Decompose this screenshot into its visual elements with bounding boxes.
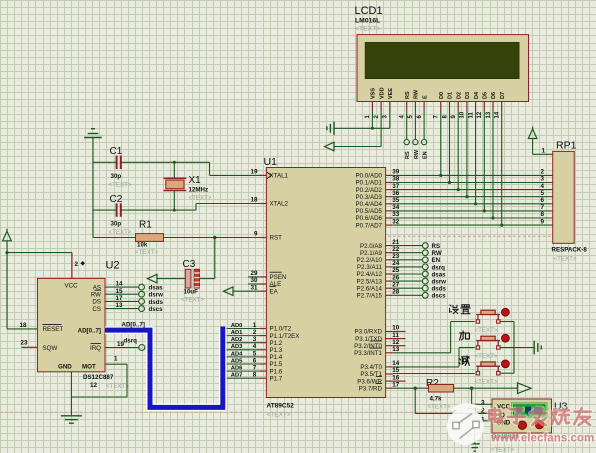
svg-text:D2: D2 bbox=[456, 92, 462, 99]
svg-text:XTAL2: XTAL2 bbox=[270, 201, 289, 208]
svg-text:3: 3 bbox=[481, 400, 485, 407]
svg-text:RW: RW bbox=[414, 89, 420, 99]
svg-text:1: 1 bbox=[542, 147, 546, 154]
svg-text:24: 24 bbox=[392, 260, 400, 267]
svg-text:P3.1/TXD: P3.1/TXD bbox=[355, 336, 382, 343]
svg-text:14: 14 bbox=[116, 281, 124, 288]
svg-text:RW: RW bbox=[414, 149, 420, 159]
svg-text:VSS: VSS bbox=[371, 88, 377, 99]
svg-text:RS: RS bbox=[405, 91, 411, 99]
svg-text:28: 28 bbox=[392, 289, 400, 296]
svg-text:XTAL1: XTAL1 bbox=[270, 173, 289, 180]
svg-text:31: 31 bbox=[250, 284, 258, 291]
svg-text:ALE: ALE bbox=[270, 281, 282, 288]
svg-text:7: 7 bbox=[541, 204, 545, 211]
svg-text:LCD1: LCD1 bbox=[355, 5, 383, 17]
svg-text:CS: CS bbox=[92, 306, 101, 313]
svg-text:C3: C3 bbox=[183, 259, 196, 270]
svg-text:P2.0/A8: P2.0/A8 bbox=[360, 243, 383, 250]
svg-text:D1: D1 bbox=[448, 92, 454, 99]
svg-text:P1.2: P1.2 bbox=[270, 340, 283, 347]
svg-text:D3: D3 bbox=[465, 92, 471, 99]
svg-text:PSEN: PSEN bbox=[270, 274, 287, 281]
svg-text:EN: EN bbox=[423, 151, 429, 159]
svg-text:AT89C52: AT89C52 bbox=[267, 403, 295, 410]
svg-text:P2.2/A10: P2.2/A10 bbox=[357, 257, 383, 264]
svg-text:36: 36 bbox=[392, 190, 400, 197]
svg-text:<TEXT>: <TEXT> bbox=[475, 379, 498, 386]
svg-text:6: 6 bbox=[541, 197, 545, 204]
svg-text:P2.1/A9: P2.1/A9 bbox=[360, 250, 383, 257]
svg-text:10uF: 10uF bbox=[184, 289, 199, 296]
svg-text:SQW: SQW bbox=[43, 345, 58, 352]
svg-text:30: 30 bbox=[250, 277, 258, 284]
svg-text:P3.7/RD: P3.7/RD bbox=[359, 385, 383, 392]
svg-text:dsds: dsds bbox=[432, 286, 447, 293]
svg-text:9: 9 bbox=[541, 218, 545, 225]
svg-text:D5: D5 bbox=[483, 92, 489, 99]
svg-text:C1: C1 bbox=[110, 146, 123, 157]
svg-text:35: 35 bbox=[392, 197, 400, 204]
svg-text:25: 25 bbox=[392, 267, 400, 274]
svg-text:<TEXT>: <TEXT> bbox=[109, 182, 132, 189]
svg-text:AD6: AD6 bbox=[231, 366, 243, 372]
svg-text:RS: RS bbox=[405, 151, 411, 159]
svg-text:1: 1 bbox=[253, 322, 257, 329]
svg-text:4: 4 bbox=[541, 183, 545, 190]
svg-text:P0.5/AD5: P0.5/AD5 bbox=[356, 208, 383, 215]
svg-text:13: 13 bbox=[486, 111, 492, 118]
svg-text:D0: D0 bbox=[439, 92, 445, 99]
svg-text:EN: EN bbox=[432, 257, 441, 264]
svg-text:AD3: AD3 bbox=[231, 344, 243, 350]
svg-text:7: 7 bbox=[253, 365, 257, 372]
svg-text:12: 12 bbox=[392, 339, 400, 346]
svg-text:12: 12 bbox=[477, 111, 483, 118]
svg-text:P2.5/A13: P2.5/A13 bbox=[357, 278, 383, 285]
svg-text:R1: R1 bbox=[139, 220, 152, 231]
svg-text:U1: U1 bbox=[264, 156, 278, 168]
svg-text:P1.0/T2: P1.0/T2 bbox=[270, 326, 292, 333]
svg-text:39: 39 bbox=[392, 169, 400, 176]
svg-text:dsrq: dsrq bbox=[432, 264, 446, 271]
svg-text:29: 29 bbox=[250, 270, 258, 277]
svg-text:P3.3/INT1: P3.3/INT1 bbox=[354, 350, 382, 357]
svg-text:AD0: AD0 bbox=[231, 323, 243, 329]
svg-text:D6: D6 bbox=[491, 92, 497, 99]
svg-text:RESPACK-8: RESPACK-8 bbox=[552, 247, 588, 254]
svg-text:P3.5/T1: P3.5/T1 bbox=[360, 371, 382, 378]
svg-text:3: 3 bbox=[253, 336, 257, 343]
svg-text:17: 17 bbox=[116, 295, 124, 302]
svg-text:33: 33 bbox=[392, 211, 400, 218]
svg-text:<TEXT>: <TEXT> bbox=[428, 404, 451, 411]
svg-text:<TEXT>: <TEXT> bbox=[189, 195, 212, 202]
svg-text:DS: DS bbox=[92, 299, 101, 306]
svg-text:dsas: dsas bbox=[432, 271, 447, 278]
svg-text:dsds: dsds bbox=[149, 299, 164, 306]
svg-text:P3.6/WR: P3.6/WR bbox=[357, 378, 382, 385]
svg-text:P2.3/A11: P2.3/A11 bbox=[357, 264, 383, 271]
svg-text:14: 14 bbox=[495, 111, 501, 118]
svg-text:VCC: VCC bbox=[65, 283, 79, 290]
svg-text:X1: X1 bbox=[189, 175, 202, 186]
svg-text:dscs: dscs bbox=[432, 293, 447, 300]
svg-text:26: 26 bbox=[392, 274, 400, 281]
svg-text:RS: RS bbox=[432, 243, 441, 250]
svg-text:6: 6 bbox=[253, 357, 257, 364]
svg-text:<TEXT>: <TEXT> bbox=[181, 297, 204, 304]
svg-text:RW: RW bbox=[432, 250, 442, 257]
svg-text:4.7k: 4.7k bbox=[430, 396, 443, 403]
svg-text:P3.0/RXD: P3.0/RXD bbox=[354, 329, 382, 336]
svg-text:EA: EA bbox=[270, 288, 279, 295]
svg-text:2: 2 bbox=[541, 169, 545, 176]
svg-text:9: 9 bbox=[254, 231, 258, 238]
svg-text:15: 15 bbox=[116, 288, 124, 295]
svg-text:P3.4/T0: P3.4/T0 bbox=[360, 364, 382, 371]
svg-text:dsas: dsas bbox=[149, 285, 164, 292]
svg-text:AD2: AD2 bbox=[231, 337, 243, 343]
svg-text:37: 37 bbox=[392, 183, 400, 190]
svg-text:AD[0..7]: AD[0..7] bbox=[78, 327, 101, 334]
svg-text:VEE: VEE bbox=[388, 88, 394, 99]
svg-text:8: 8 bbox=[541, 211, 545, 218]
svg-text:RST: RST bbox=[270, 235, 283, 242]
svg-text:2: 2 bbox=[253, 329, 257, 336]
svg-text:P0.1/AD1: P0.1/AD1 bbox=[356, 180, 383, 187]
svg-text:dsrw: dsrw bbox=[149, 292, 164, 299]
svg-text:23: 23 bbox=[21, 340, 29, 347]
svg-text:DS12C887: DS12C887 bbox=[83, 374, 114, 381]
svg-text:<TEXT>: <TEXT> bbox=[554, 256, 577, 263]
svg-text:AD5: AD5 bbox=[231, 358, 243, 364]
svg-text:P1.6: P1.6 bbox=[270, 368, 283, 375]
svg-text:dscs: dscs bbox=[149, 306, 164, 313]
svg-text:www.elecfans.com: www.elecfans.com bbox=[490, 432, 594, 445]
svg-text:<TEXT>: <TEXT> bbox=[475, 353, 498, 360]
svg-text:5: 5 bbox=[541, 190, 545, 197]
svg-text:C2: C2 bbox=[110, 194, 123, 205]
svg-text:AD[0..7]: AD[0..7] bbox=[122, 322, 145, 329]
svg-text:P1.5: P1.5 bbox=[270, 361, 283, 368]
svg-text:27: 27 bbox=[392, 281, 400, 288]
svg-text:22: 22 bbox=[392, 246, 400, 253]
svg-text:34: 34 bbox=[392, 204, 400, 211]
svg-text:IRQ: IRQ bbox=[90, 345, 101, 352]
svg-text:RESET: RESET bbox=[43, 326, 64, 333]
svg-text:5: 5 bbox=[253, 350, 257, 357]
svg-text:<TEXT>: <TEXT> bbox=[491, 447, 514, 453]
svg-text:RW: RW bbox=[91, 291, 101, 298]
svg-text:<TEXT>: <TEXT> bbox=[355, 26, 380, 33]
svg-text:P3.2/INT0: P3.2/INT0 bbox=[354, 343, 382, 350]
svg-text:18: 18 bbox=[250, 197, 258, 204]
svg-text:<TEXT>: <TEXT> bbox=[135, 249, 158, 256]
svg-text:16: 16 bbox=[392, 374, 400, 381]
svg-text:P1.3: P1.3 bbox=[270, 347, 283, 354]
svg-text:14: 14 bbox=[392, 360, 400, 367]
svg-text:32: 32 bbox=[392, 218, 400, 225]
svg-text:AD7: AD7 bbox=[231, 373, 243, 379]
svg-text:P0.6/AD6: P0.6/AD6 bbox=[356, 215, 383, 222]
svg-text:10: 10 bbox=[460, 111, 466, 118]
svg-text:11: 11 bbox=[392, 332, 399, 339]
svg-text:<TEXT>: <TEXT> bbox=[475, 327, 498, 334]
svg-text:RP1: RP1 bbox=[556, 140, 577, 152]
svg-text:MOT: MOT bbox=[82, 363, 96, 370]
svg-text:P2.6/A14: P2.6/A14 bbox=[357, 285, 383, 292]
svg-text:11: 11 bbox=[468, 111, 474, 118]
svg-text:GND: GND bbox=[58, 363, 72, 370]
svg-text:19: 19 bbox=[250, 169, 258, 176]
svg-text:P0.7/AD7: P0.7/AD7 bbox=[356, 222, 383, 229]
svg-text:<TEXT>: <TEXT> bbox=[106, 383, 129, 390]
svg-text:P1.7: P1.7 bbox=[270, 375, 283, 382]
svg-text:D4: D4 bbox=[474, 91, 480, 99]
svg-text:3: 3 bbox=[541, 176, 545, 183]
svg-text:4: 4 bbox=[253, 343, 257, 350]
svg-text:13: 13 bbox=[116, 302, 124, 309]
svg-text:E: E bbox=[422, 95, 428, 99]
svg-text:P1.4: P1.4 bbox=[270, 354, 283, 361]
svg-text:10k: 10k bbox=[137, 242, 148, 249]
svg-text:P0.3/AD3: P0.3/AD3 bbox=[356, 194, 383, 201]
svg-text:30p: 30p bbox=[111, 173, 122, 180]
svg-text:23: 23 bbox=[392, 253, 400, 260]
svg-text:17: 17 bbox=[392, 381, 400, 388]
svg-text:P2.4/A12: P2.4/A12 bbox=[357, 271, 383, 278]
svg-text:AD1: AD1 bbox=[231, 330, 243, 336]
svg-text:21: 21 bbox=[392, 239, 400, 246]
svg-text:dsrw: dsrw bbox=[432, 279, 447, 286]
svg-text:18: 18 bbox=[20, 322, 28, 329]
svg-text:D7: D7 bbox=[500, 92, 506, 99]
svg-text:P0.4/AD4: P0.4/AD4 bbox=[356, 201, 383, 208]
svg-text:P0.2/AD2: P0.2/AD2 bbox=[356, 187, 383, 194]
svg-text:U2: U2 bbox=[106, 260, 120, 272]
svg-text:P0.0/AD0: P0.0/AD0 bbox=[356, 173, 383, 180]
svg-text:dsrq: dsrq bbox=[124, 338, 138, 345]
svg-text:30p: 30p bbox=[111, 221, 122, 228]
svg-text:12MHz: 12MHz bbox=[189, 187, 209, 194]
svg-text:12: 12 bbox=[90, 382, 98, 389]
svg-text:AD4: AD4 bbox=[231, 351, 243, 357]
svg-text:P1.1/T2EX: P1.1/T2EX bbox=[270, 333, 300, 340]
svg-text:<TEXT>: <TEXT> bbox=[109, 229, 132, 236]
svg-text:38: 38 bbox=[392, 176, 400, 183]
svg-text:13: 13 bbox=[392, 346, 400, 353]
svg-text:1: 1 bbox=[114, 356, 118, 363]
svg-text:LM016L: LM016L bbox=[355, 18, 380, 25]
svg-text:2: 2 bbox=[75, 261, 79, 268]
svg-text:8: 8 bbox=[253, 372, 257, 379]
svg-text:P2.7/A15: P2.7/A15 bbox=[357, 293, 383, 300]
svg-text:VDD: VDD bbox=[379, 87, 385, 99]
svg-text:10: 10 bbox=[392, 325, 400, 332]
